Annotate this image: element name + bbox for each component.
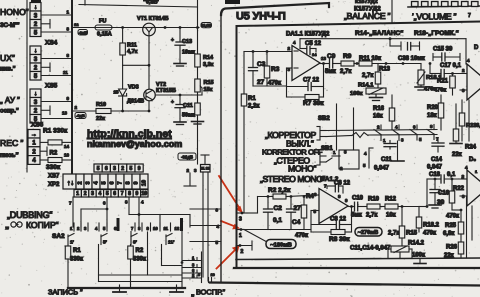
resistor R1 330k (SA2) bbox=[65, 245, 83, 289]
svg-text:8: 8 bbox=[128, 191, 131, 197]
wire XS5.2 stub bbox=[41, 106, 50, 115]
switch SB1 bbox=[316, 146, 347, 171]
label KORREKTOR OFF bbox=[262, 148, 323, 157]
feedback R7 39k bbox=[287, 64, 325, 108]
svg-text:D₀: D₀ bbox=[469, 157, 476, 163]
power module top wire 6.8V bbox=[79, 0, 198, 28]
svg-text:2: 2 bbox=[84, 191, 87, 197]
svg-text:R16: R16 bbox=[373, 106, 385, 112]
capacitor C3 27 bbox=[249, 52, 266, 87]
pins 2 3 with ground bbox=[184, 122, 198, 186]
svg-text:1: 1 bbox=[76, 191, 79, 197]
label STEREO rus bbox=[274, 156, 310, 166]
svg-text:11’: 11’ bbox=[168, 240, 174, 246]
top edge cut fragments bbox=[31, 0, 159, 5]
svg-text:↓: ↓ bbox=[34, 5, 37, 11]
label VOSPR bbox=[191, 288, 226, 297]
label REC zapis bbox=[0, 138, 24, 159]
svg-text:13: 13 bbox=[62, 111, 68, 116]
transistor VT1 KT814 bbox=[137, 16, 169, 36]
title U5 UNCH-P bbox=[236, 11, 286, 23]
svg-text:C2: C2 bbox=[274, 205, 283, 212]
svg-text:R26: R26 bbox=[446, 245, 458, 251]
capacitor C4 27 bbox=[287, 197, 302, 230]
svg-text:6: 6 bbox=[109, 181, 115, 184]
ZAPIS bus bbox=[48, 288, 185, 297]
svg-text:6,8к: 6,8к bbox=[443, 231, 454, 237]
label R18 GROMK bbox=[414, 30, 459, 37]
top label VOLUME bbox=[412, 12, 471, 22]
label SA2 bbox=[52, 233, 65, 240]
resistor R13 bbox=[362, 64, 391, 89]
terminal 3 bbox=[237, 212, 248, 223]
terminal rung 3 bbox=[182, 263, 202, 268]
svg-text:0,047: 0,047 bbox=[427, 165, 443, 171]
svg-text:ЗС-М’”: ЗС-М’” bbox=[0, 23, 20, 29]
resistor R2 (U5) bbox=[258, 194, 320, 199]
svg-text:1: 1 bbox=[239, 233, 242, 239]
capacitor C11 0,047 bbox=[374, 141, 396, 172]
SA2 right link verticals bbox=[190, 208, 221, 246]
wire XS5.3 to bus pin 9 bbox=[41, 96, 72, 102]
corner box above-left (black) bbox=[225, 0, 240, 4]
svg-text:1’: 1’ bbox=[70, 240, 74, 246]
svg-text:→: → bbox=[31, 132, 37, 138]
svg-text:R11: R11 bbox=[127, 43, 137, 49]
svg-text:C18: C18 bbox=[429, 172, 441, 178]
svg-text:R1: R1 bbox=[248, 96, 256, 102]
connector XS4 pin 3 bbox=[30, 55, 41, 64]
verticals to SB1 bbox=[337, 104, 354, 150]
wire VT1 base down to VT2 bbox=[148, 36, 150, 89]
label STEREO MONO bbox=[260, 174, 326, 184]
wire top label to box bbox=[391, 0, 393, 22]
svg-text:6,8В: 6,8В bbox=[146, 0, 158, 6]
svg-text:18к: 18к bbox=[427, 113, 437, 119]
module pin row top bbox=[94, 164, 143, 172]
DA1.1 input wire bbox=[244, 50, 292, 53]
volume pot R18.1 470k bbox=[417, 64, 442, 93]
svg-text:„ АУ ”: „ АУ ” bbox=[0, 96, 20, 105]
callout ~180mV bbox=[266, 240, 296, 249]
svg-text:3: 3 bbox=[85, 181, 91, 184]
capacitor C38 10mk top branch bbox=[300, 37, 466, 62]
wire XS3.2 stub bbox=[41, 20, 50, 29]
svg-text:5: 5 bbox=[101, 181, 107, 184]
resistor R11 10k (U5) bbox=[354, 56, 421, 66]
red arrow 1 bbox=[219, 176, 243, 214]
label PHONO bbox=[0, 7, 29, 29]
capacitor C18 0,1 bbox=[427, 172, 462, 183]
terminal rung 1 bbox=[182, 256, 202, 261]
label AUX bbox=[0, 53, 16, 73]
VOSPR bus bbox=[198, 273, 480, 286]
svg-text:50мк: 50мк bbox=[182, 113, 195, 119]
svg-text:100к: 100к bbox=[350, 91, 363, 97]
connector XS5 pin shield bbox=[30, 89, 41, 98]
svg-text:R2 2,2к: R2 2,2к bbox=[268, 187, 291, 194]
contact 6-5 bbox=[410, 125, 422, 143]
label AY vospr bbox=[0, 96, 20, 115]
capacitor C6 12 bbox=[327, 181, 351, 194]
capacitor C2 0,1 bbox=[264, 197, 283, 230]
connector XS3 pin 5 bbox=[30, 28, 41, 37]
feedback C7 12 bbox=[287, 78, 324, 91]
svg-text:ХР2: ХР2 bbox=[48, 182, 60, 188]
svg-text:16: 16 bbox=[64, 153, 70, 158]
svg-text:2,7к: 2,7к bbox=[362, 73, 373, 79]
svg-text:470к: 470к bbox=[446, 214, 459, 220]
DA1.2 output bbox=[348, 205, 355, 208]
SA2 link wires bbox=[81, 208, 190, 227]
svg-text:R2: R2 bbox=[50, 151, 58, 157]
callout level -31dB bbox=[178, 153, 196, 160]
svg-text:пись”: пись” bbox=[0, 152, 19, 159]
svg-text:C15 39: C15 39 bbox=[433, 47, 453, 53]
svg-text:5’: 5’ bbox=[103, 240, 107, 246]
svg-text:КОПИР“: КОПИР“ bbox=[26, 220, 59, 230]
label DA1.1 K157UD2 bbox=[286, 32, 330, 38]
DA1.1 pin3 wire bbox=[287, 68, 293, 97]
svg-text:6: 6 bbox=[113, 191, 116, 197]
svg-text:7: 7 bbox=[468, 13, 471, 19]
connector XS6 pin 2 bbox=[28, 147, 40, 156]
op-amp DA1.1 bbox=[288, 40, 327, 81]
terminal 1 bbox=[236, 228, 244, 239]
svg-text:13: 13 bbox=[321, 56, 327, 61]
left bus vertical bbox=[71, 0, 73, 174]
svg-text:11: 11 bbox=[63, 70, 68, 75]
wire after R9 / R11 line bbox=[356, 62, 359, 65]
connector XS4 pin 2 bbox=[30, 63, 41, 72]
connector XS3 pin 3 bbox=[30, 11, 41, 20]
email bbox=[87, 139, 182, 149]
terminal3 riser to R2 line bbox=[247, 197, 258, 214]
resistor lower (R15 lower half) bbox=[192, 92, 204, 124]
resistor R10 2,7k (U5) bbox=[366, 197, 385, 219]
IC footprint top right bbox=[408, 2, 480, 8]
svg-text:R3: R3 bbox=[271, 66, 280, 73]
SA2 drop wires from XP2 bbox=[69, 197, 144, 227]
svg-text:470к: 470к bbox=[423, 231, 436, 237]
svg-text:R10: R10 bbox=[96, 102, 106, 108]
wire XS3.3 to bus pin 1 bbox=[41, 10, 72, 16]
svg-text:2,2к: 2,2к bbox=[248, 104, 259, 110]
connector XS7 row bbox=[63, 174, 148, 189]
pin boxes 11 12 bbox=[201, 155, 211, 281]
svg-text:10: 10 bbox=[142, 191, 148, 197]
resistor R3 470k bbox=[264, 52, 281, 87]
callout ~270mV bbox=[355, 228, 382, 237]
capacitor C5 12 bbox=[300, 39, 322, 55]
svg-text:R14.2: R14.2 bbox=[408, 241, 425, 247]
svg-text:C10: C10 bbox=[352, 196, 364, 202]
capacitor C13 10mk bbox=[171, 28, 195, 67]
svg-text:С38 10мк: С38 10мк bbox=[398, 56, 425, 62]
svg-text:МОНО“: МОНО“ bbox=[288, 164, 317, 174]
svg-text:22к: 22к bbox=[96, 116, 105, 122]
DA1.2 pin5 drop bbox=[311, 211, 319, 233]
pins 4 5 under switch bbox=[363, 148, 373, 168]
resistor R21 470k bbox=[434, 74, 455, 96]
contact 2-1 bbox=[374, 125, 386, 144]
resistor R25 6,8k bbox=[443, 209, 464, 242]
SB1 contact box bbox=[339, 150, 359, 169]
callout voltage 12,6V bbox=[201, 23, 212, 28]
leader to 180mV callout bbox=[244, 230, 267, 243]
feedback C8 12 bbox=[311, 217, 352, 229]
terminal ladder rails bbox=[181, 232, 202, 289]
balance pot R14.1 100k bbox=[350, 83, 386, 98]
correction bus lines bbox=[326, 130, 437, 137]
red arrow 2 bbox=[221, 221, 240, 229]
svg-text:R9: R9 bbox=[343, 53, 352, 60]
svg-text:нив.”: нив.” bbox=[0, 67, 16, 73]
transistor VT2 KT315B bbox=[144, 82, 176, 101]
svg-text:nkamnev@yahoo.com: nkamnev@yahoo.com bbox=[87, 139, 182, 149]
svg-text:оспр.”: оспр.” bbox=[0, 109, 19, 115]
label R24 22k bbox=[452, 145, 477, 159]
wire XS4.2 stub bbox=[41, 63, 50, 72]
svg-text:~180мВ: ~180мВ bbox=[270, 243, 292, 249]
svg-text:C11: C11 bbox=[381, 157, 392, 163]
SA2 wipers bbox=[68, 234, 174, 246]
svg-text:11 12: 11 12 bbox=[201, 167, 210, 171]
switch SA2 contact row bbox=[70, 218, 183, 231]
wires to terminal stack bbox=[99, 266, 183, 282]
svg-text:12,6В: 12,6В bbox=[201, 24, 211, 28]
svg-text:16к: 16к bbox=[373, 114, 383, 120]
svg-text:R1 330к: R1 330к bbox=[43, 128, 68, 135]
svg-text:25: 25 bbox=[114, 90, 120, 95]
svg-text:3: 3 bbox=[239, 217, 242, 223]
svg-text:7: 7 bbox=[117, 181, 123, 184]
capacitor C9 5mk bbox=[325, 53, 341, 75]
svg-text:„: „ bbox=[191, 291, 195, 297]
svg-text:C11,C14-0,047: C11,C14-0,047 bbox=[350, 246, 391, 252]
svg-text:R21: R21 bbox=[437, 79, 449, 85]
junction VD3/VT2 bottom bbox=[121, 101, 150, 113]
svg-text:0,1: 0,1 bbox=[447, 172, 456, 178]
ground under R18.1 bbox=[415, 85, 427, 90]
svg-text:330к: 330к bbox=[70, 257, 83, 263]
ground rail DA1.2 bbox=[236, 229, 311, 231]
label KORREKTOR bbox=[265, 130, 317, 140]
ground between rails bbox=[414, 259, 426, 264]
svg-text:3,3к: 3,3к bbox=[203, 62, 214, 68]
svg-text:Д814В: Д814В bbox=[127, 99, 144, 105]
connector XS3 PHONO pin shield bbox=[30, 3, 41, 12]
svg-text:R10: R10 bbox=[368, 197, 380, 203]
DA2.2 feedback vertical bbox=[467, 196, 473, 258]
contact 8-7 bbox=[427, 124, 439, 142]
svg-text:C5 12: C5 12 bbox=[305, 41, 322, 47]
capacitor C17 0,1 bbox=[429, 62, 466, 77]
connector XS4 pin shield bbox=[30, 46, 41, 55]
wire XS4.3 to bus pin 8 bbox=[41, 53, 72, 59]
ground under R14.1 bbox=[370, 94, 383, 101]
terminal rung 6 bbox=[182, 268, 202, 273]
U5 inner ground rail bottom bbox=[236, 258, 480, 260]
svg-text:C4: C4 bbox=[292, 219, 301, 226]
svg-text:VT1 КТ814Б: VT1 КТ814Б bbox=[137, 16, 169, 22]
resistor R26 22k bbox=[444, 242, 464, 259]
svg-text:R12: R12 bbox=[385, 197, 397, 203]
wire XS5.5 to bus pin 13 bbox=[41, 111, 72, 119]
svg-text:R24: R24 bbox=[465, 145, 477, 151]
capacitor C10 5mk bbox=[351, 196, 367, 219]
svg-text:R7 39к: R7 39к bbox=[303, 100, 324, 107]
label R2 2,2k bbox=[268, 187, 291, 194]
svg-text:330к: 330к bbox=[46, 164, 61, 171]
resistor R11 4,7k bbox=[120, 28, 138, 66]
svg-text:SB1: SB1 bbox=[321, 146, 333, 152]
svg-text:11: 11 bbox=[164, 226, 169, 231]
wire XS4.5 to bus pin 11 bbox=[41, 70, 72, 76]
svg-text:8: 8 bbox=[125, 181, 131, 184]
capacitor C15 39 bbox=[433, 47, 460, 62]
svg-text:ВОСПР.”: ВОСПР.” bbox=[196, 288, 226, 297]
trim pot R14.2 100k bbox=[388, 241, 425, 259]
svg-text:R15: R15 bbox=[204, 80, 214, 86]
connector XS6 pin 4 bbox=[28, 156, 40, 165]
wire XS3.5 to bus pin 3 bbox=[41, 27, 72, 33]
svg-text:К157УД2: К157УД2 bbox=[355, 0, 378, 5]
op-amp DA1.2 bbox=[314, 176, 349, 224]
svg-text:HONO”: HONO” bbox=[0, 7, 29, 17]
svg-text:2: 2 bbox=[77, 181, 83, 184]
svg-text:R15: R15 bbox=[406, 231, 418, 237]
resistor R12 10k bbox=[385, 197, 419, 219]
svg-text:U5 УНЧ-П: U5 УНЧ-П bbox=[236, 11, 286, 23]
svg-text:C9: C9 bbox=[327, 53, 336, 60]
resistor R1 2,2k (U5) bbox=[241, 52, 259, 214]
label XS5 bbox=[45, 83, 58, 90]
resistor R16 16k bbox=[373, 95, 395, 130]
svg-text:9: 9 bbox=[136, 191, 139, 197]
svg-text:9: 9 bbox=[198, 273, 200, 277]
trimmer R15 15k bbox=[195, 67, 214, 95]
ground tick 1 on zapis bus bbox=[113, 285, 126, 292]
resistor R1 (rec) bbox=[40, 140, 72, 149]
svg-text:3: 3 bbox=[91, 191, 94, 197]
svg-text:XS5: XS5 bbox=[45, 83, 58, 90]
wire R11 bottom to VT1 base line bbox=[123, 64, 151, 67]
svg-text:↑↓: ↑↓ bbox=[67, 180, 74, 187]
svg-text:VD3: VD3 bbox=[128, 85, 139, 91]
svg-text:100к: 100к bbox=[412, 253, 425, 259]
svg-text:C11: C11 bbox=[183, 103, 193, 109]
capacitor C14 0,047 bbox=[427, 140, 444, 171]
label XS7 bbox=[48, 174, 60, 180]
svg-text:R18-„ГРОМК.“: R18-„ГРОМК.“ bbox=[414, 30, 459, 37]
svg-text:27: 27 bbox=[294, 205, 302, 212]
svg-text:-9дБ: -9дБ bbox=[76, 114, 85, 118]
svg-text:D: D bbox=[474, 45, 479, 51]
svg-text:12: 12 bbox=[175, 226, 180, 231]
crossing squiggle bbox=[352, 133, 368, 138]
svg-text:↓: ↓ bbox=[34, 48, 37, 54]
svg-text:DA1.1 К157УД2: DA1.1 К157УД2 bbox=[286, 32, 330, 38]
svg-text:~270мВ: ~270мВ bbox=[358, 230, 378, 236]
top label BALANCE bbox=[344, 11, 391, 21]
svg-text:R20: R20 bbox=[427, 105, 439, 111]
svg-text:5мк: 5мк bbox=[325, 69, 336, 75]
svg-text:10: 10 bbox=[141, 180, 147, 186]
svg-text:22к: 22к bbox=[452, 152, 462, 158]
svg-text:R14: R14 bbox=[203, 55, 214, 61]
svg-text:’„VOLUME ”: ’„VOLUME ” bbox=[412, 12, 457, 22]
svg-text:2,7к: 2,7к bbox=[340, 69, 351, 75]
junction dots top wire bbox=[121, 26, 199, 29]
label XS6 bbox=[31, 122, 44, 129]
svg-text:15к: 15к bbox=[204, 87, 213, 93]
svg-text:UX”: UX” bbox=[0, 53, 15, 63]
svg-text:14: 14 bbox=[312, 52, 317, 57]
svg-text:R14-„БАЛАНС“: R14-„БАЛАНС“ bbox=[355, 30, 403, 37]
switch SB2 bbox=[317, 116, 330, 140]
svg-text:470к: 470к bbox=[434, 88, 446, 94]
callout level -3dB bbox=[74, 22, 88, 35]
svg-text:↓: ↓ bbox=[34, 91, 37, 97]
svg-text:-3дБ: -3дБ bbox=[79, 31, 88, 35]
wire fuse line bbox=[72, 27, 199, 29]
svg-text:FU: FU bbox=[99, 19, 106, 25]
svg-text:ЗАПИСЬ ”: ЗАПИСЬ ” bbox=[48, 288, 83, 297]
svg-text:REC ”: REC ” bbox=[0, 138, 24, 148]
resistor R22 470k bbox=[446, 179, 465, 220]
svg-text:„BALANCE ”: „BALANCE ” bbox=[344, 11, 391, 21]
DUBBING labels bbox=[7, 210, 52, 220]
svg-text:5мк: 5мк bbox=[351, 213, 362, 219]
svg-text:0,1: 0,1 bbox=[273, 217, 282, 224]
callout level -9dB bbox=[75, 113, 86, 119]
svg-text:+: + bbox=[171, 100, 174, 106]
label XS4 bbox=[45, 40, 58, 47]
right column resistor below R23 bbox=[453, 104, 459, 143]
resistor R15 2,7k (vertical) bbox=[388, 207, 418, 247]
website link bbox=[87, 128, 172, 140]
svg-text:27: 27 bbox=[257, 79, 265, 86]
svg-text:С14: С14 bbox=[431, 157, 443, 163]
wire C3 R3 bottoms bbox=[253, 85, 287, 87]
zener VD3 D814V bbox=[114, 65, 145, 111]
svg-text:„DUBBING“: „DUBBING“ bbox=[7, 210, 52, 220]
svg-text:470к: 470к bbox=[295, 233, 308, 239]
svg-text:5: 5 bbox=[106, 191, 109, 197]
label R1 330k bbox=[43, 128, 68, 135]
svg-text:2: 2 bbox=[241, 249, 244, 255]
svg-text:С13: С13 bbox=[182, 39, 192, 45]
ground tick 2 on zapis bus bbox=[170, 285, 183, 292]
U5 box frame bbox=[234, 22, 480, 269]
svg-text:22к: 22к bbox=[444, 253, 454, 259]
svg-text:10мк: 10мк bbox=[182, 50, 195, 56]
op-amp DA2.1 (cut) bbox=[460, 39, 480, 100]
svg-text:5: 5 bbox=[97, 166, 100, 172]
connector XS5 pin 5 bbox=[30, 115, 41, 124]
connector XS6 pin shield bbox=[28, 130, 40, 139]
C18 line riser bbox=[419, 179, 428, 208]
resistor R2 (rec) bbox=[40, 153, 72, 163]
label R14 BALANS bbox=[355, 30, 403, 37]
svg-text:R2: R2 bbox=[136, 248, 144, 254]
svg-text:C17 0,1: C17 0,1 bbox=[440, 63, 462, 69]
KOPIR label with icon bbox=[5, 220, 59, 230]
op-amp DA2.2 (cut) bbox=[460, 157, 480, 206]
svg-text:SA2: SA2 bbox=[52, 233, 65, 240]
svg-text:+: + bbox=[171, 38, 174, 44]
